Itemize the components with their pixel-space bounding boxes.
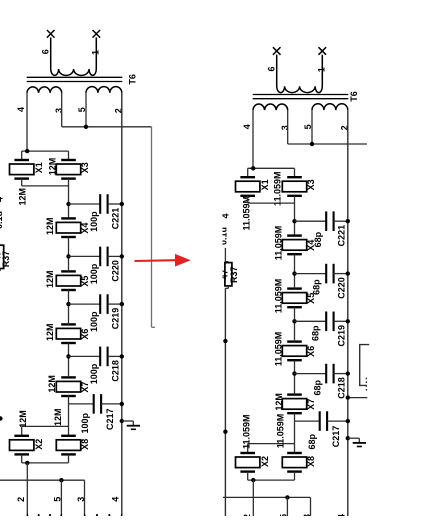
svg-text:12M: 12M bbox=[47, 158, 57, 176]
node C221 tap (L) bbox=[66, 202, 70, 206]
transformer T6 core (L) bbox=[27, 76, 123, 78]
svg-text:C221: C221 bbox=[337, 225, 347, 247]
node C218 bus junction (R) bbox=[346, 371, 350, 375]
right filter circuit bbox=[218, 213, 239, 521]
wire bus pin2 vertical (L) bbox=[121, 93, 123, 514]
wire C217 left (L) bbox=[69, 403, 94, 405]
node neighbour bus upper (R) bbox=[223, 339, 227, 343]
wire chain X3-X4 (R) bbox=[294, 196, 296, 236]
wire X2-X8 bottom net (L) bbox=[22, 462, 69, 464]
svg-text:X3: X3 bbox=[306, 179, 316, 190]
capacitor C218 (L) bbox=[99, 347, 101, 367]
node C219 tap (L) bbox=[66, 302, 70, 306]
wire bus pin2 vertical (R) bbox=[347, 110, 349, 521]
capacitor C219 (R) bbox=[325, 312, 327, 332]
svg-text:12M: 12M bbox=[274, 393, 284, 411]
svg-text:X8: X8 bbox=[80, 439, 90, 450]
wire X3 top lead (R) bbox=[294, 168, 296, 177]
ground (R) bbox=[358, 438, 360, 443]
wire bottom pin5 lead (L) bbox=[60, 480, 62, 514]
crystal X6 (R) bbox=[287, 340, 302, 342]
wire C217 right (R) bbox=[327, 420, 348, 422]
wire to ground (L) bbox=[122, 420, 134, 422]
capacitor C220 (L) bbox=[99, 247, 101, 267]
svg-text:C218: C218 bbox=[337, 377, 347, 399]
wire bottom horizontal net (R) bbox=[223, 496, 311, 498]
wire C220 right (L) bbox=[108, 255, 122, 257]
crystal X8 (L) bbox=[61, 435, 76, 437]
svg-text:2: 2 bbox=[16, 497, 26, 502]
wire neighbour bus (R) bbox=[224, 288, 226, 521]
wire pin4 lead (L) bbox=[26, 93, 28, 151]
svg-text:X8: X8 bbox=[306, 456, 316, 467]
node C220 tap (L) bbox=[66, 254, 70, 258]
transformer T6 primary x-mark pin 6 (R) bbox=[273, 47, 281, 55]
svg-text:100p: 100p bbox=[89, 311, 99, 332]
wire C221 right (L) bbox=[108, 203, 122, 205]
ground (L) bbox=[132, 421, 134, 426]
node C220 bus junction (R) bbox=[346, 271, 350, 275]
transformer T6 secondary winding 4-3 (L) bbox=[27, 87, 62, 93]
wire chain X3-X4 (L) bbox=[68, 179, 70, 219]
svg-text:12M: 12M bbox=[45, 323, 55, 341]
bottom transformer winding 2-5 (L) bbox=[27, 514, 61, 520]
svg-text:3: 3 bbox=[280, 125, 290, 130]
wire C218 left (R) bbox=[295, 373, 327, 375]
node bottom pin5 junction (R) bbox=[285, 495, 289, 499]
capacitor C217 (R) bbox=[319, 411, 321, 431]
wire chain X4-X5 (R) bbox=[294, 254, 296, 288]
wire R37 bottom lead (R) bbox=[227, 286, 229, 288]
svg-text:C219: C219 bbox=[111, 308, 121, 330]
node bottom pin5 junction (L) bbox=[59, 478, 63, 482]
wire chain X5-X6 (L) bbox=[68, 290, 70, 324]
node bottom pin2 junction (R) bbox=[251, 478, 255, 482]
transformer T6 primary winding 6-1 (L) bbox=[51, 37, 97, 75]
crystal X5 (R) bbox=[287, 287, 302, 289]
svg-text:C217: C217 bbox=[331, 426, 341, 448]
wire R37 bottom lead (L) bbox=[0, 269, 1, 271]
svg-text:11.059M: 11.059M bbox=[272, 171, 282, 206]
wire X1 top lead (L) bbox=[21, 151, 23, 160]
svg-text:C220: C220 bbox=[111, 260, 121, 282]
crystal X2 (L) bbox=[14, 435, 29, 437]
wire pin3-pin5 net (R) bbox=[288, 143, 348, 145]
crystal X3 (L) bbox=[61, 159, 76, 161]
svg-text:11.059M: 11.059M bbox=[273, 226, 283, 261]
wire C221 left (L) bbox=[69, 203, 101, 205]
crystal X1 (L) bbox=[14, 159, 29, 161]
transformer T6 primary x-mark pin 6 (L) bbox=[47, 30, 55, 38]
wire X2-X8 bottom net (R) bbox=[248, 479, 295, 481]
wire X3 top lead (L) bbox=[68, 151, 70, 160]
svg-text:100p: 100p bbox=[89, 363, 99, 384]
svg-text:6: 6 bbox=[40, 49, 50, 54]
wire C218 left (L) bbox=[69, 355, 101, 357]
wire C220 left (R) bbox=[295, 273, 327, 275]
svg-text:4: 4 bbox=[111, 497, 121, 502]
wire X2 branch (R) bbox=[248, 443, 295, 445]
transformer T6 secondary winding 5-2 (L) bbox=[86, 87, 122, 93]
wire bottom pin2 lead (L) bbox=[26, 463, 28, 514]
svg-text:C219: C219 bbox=[337, 325, 347, 347]
node ground junction (L) bbox=[120, 419, 124, 423]
capacitor C221 (R) bbox=[325, 211, 327, 231]
node C219 bus junction (L) bbox=[120, 302, 124, 306]
svg-text:R37: R37 bbox=[229, 266, 239, 283]
svg-text:1: 1 bbox=[90, 50, 100, 55]
svg-text:4: 4 bbox=[0, 197, 5, 202]
node neighbour bus lower (L) bbox=[0, 416, 3, 420]
svg-text:X3: X3 bbox=[80, 162, 90, 173]
wire hook at drop end (L) bbox=[152, 326, 155, 328]
svg-text:X1: X1 bbox=[34, 162, 44, 173]
wire X1-X3 top net (L) bbox=[22, 150, 69, 152]
svg-text:11.059M: 11.059M bbox=[273, 279, 283, 314]
wire chain X6-X7 (R) bbox=[294, 360, 296, 394]
svg-text:68p: 68p bbox=[311, 325, 321, 341]
node C217 bus junction (L) bbox=[120, 402, 124, 406]
svg-text:11.059M: 11.059M bbox=[276, 414, 286, 449]
crystal X7 (R) bbox=[287, 393, 302, 395]
wire bottom pin5 lead (R) bbox=[286, 497, 288, 521]
wire bottom pin2 lead (R) bbox=[252, 480, 254, 521]
crystal X4 (R) bbox=[287, 234, 302, 236]
svg-text:4: 4 bbox=[242, 124, 252, 129]
wire X1 bottom lead (L) bbox=[21, 179, 23, 186]
right circuit stub wire bbox=[349, 397, 368, 399]
transformer T6 primary x-mark pin 1 (L) bbox=[93, 30, 101, 38]
wire C221 left (R) bbox=[295, 220, 327, 222]
wire X1-X3 bottom net (L) bbox=[22, 185, 69, 187]
resistor R37 (L) bbox=[0, 245, 4, 268]
crystal X1 (R) bbox=[240, 176, 255, 178]
svg-text:11.059M: 11.059M bbox=[242, 414, 252, 449]
svg-text:C220: C220 bbox=[337, 277, 347, 299]
wire C217 right (L) bbox=[101, 403, 122, 405]
svg-text:T6: T6 bbox=[349, 91, 359, 102]
svg-text:68p: 68p bbox=[313, 379, 323, 395]
svg-text:100p: 100p bbox=[89, 211, 99, 232]
wire C219 right (L) bbox=[108, 303, 122, 305]
svg-text:C221: C221 bbox=[111, 208, 121, 230]
wire X2 top lead (L) bbox=[21, 426, 23, 435]
wire R37 top lead (R) bbox=[224, 248, 226, 262]
svg-text:X2: X2 bbox=[260, 456, 270, 467]
svg-text:3: 3 bbox=[76, 497, 86, 502]
svg-text:C218: C218 bbox=[111, 360, 121, 382]
svg-text:12M: 12M bbox=[18, 410, 28, 428]
svg-text:12M: 12M bbox=[45, 217, 55, 235]
wire C219 left (L) bbox=[69, 303, 101, 305]
wire C220 left (L) bbox=[69, 255, 101, 257]
crystal X6 (L) bbox=[61, 323, 76, 325]
node C218 bus junction (L) bbox=[120, 354, 124, 358]
crystal X2 (R) bbox=[240, 452, 255, 454]
node pin4 junction (R) bbox=[251, 166, 255, 170]
svg-text:0.1u: 0.1u bbox=[0, 211, 4, 229]
svg-text:5: 5 bbox=[53, 497, 63, 502]
node pin4 junction (L) bbox=[25, 149, 29, 153]
node stub junction bbox=[346, 395, 350, 399]
svg-text:3: 3 bbox=[54, 108, 64, 113]
wire bottom horizontal net (L) bbox=[0, 479, 85, 481]
wire pin5 lead (R) bbox=[311, 110, 313, 144]
crystal X3 (R) bbox=[287, 176, 302, 178]
transformer T6 core (R) bbox=[253, 94, 349, 96]
crystal X8 (R) bbox=[287, 452, 302, 454]
wire C218 right (R) bbox=[334, 373, 348, 375]
wire C218 right (L) bbox=[108, 355, 122, 357]
svg-text:1: 1 bbox=[316, 67, 326, 72]
svg-text:X6: X6 bbox=[306, 346, 316, 357]
wire X8 bottom lead (R) bbox=[294, 472, 296, 481]
wire X2 bottom lead (R) bbox=[247, 472, 249, 481]
wire chain X7-X8 (L) bbox=[68, 396, 70, 436]
wire stub right of bus (L) bbox=[122, 126, 152, 128]
node C219 tap (R) bbox=[292, 319, 296, 323]
wire C221 right (R) bbox=[334, 220, 348, 222]
svg-text:12M: 12M bbox=[53, 408, 63, 426]
svg-text:68p: 68p bbox=[313, 231, 323, 247]
node C219 bus junction (R) bbox=[346, 319, 350, 323]
wire chain X4-X5 (L) bbox=[68, 237, 70, 271]
wire X2 bottom lead (L) bbox=[21, 454, 23, 463]
node C218 tap (R) bbox=[292, 371, 296, 375]
wire bottom pin3 lead (R) bbox=[310, 497, 312, 521]
capacitor C220 (R) bbox=[325, 264, 327, 284]
wire C217 left (R) bbox=[295, 420, 320, 422]
node pin3/pin5 junction (L) bbox=[84, 125, 88, 129]
wire chain X7-X8 (R) bbox=[294, 413, 296, 453]
wire chain X5-X6 (R) bbox=[294, 307, 296, 341]
node neighbour bus lower (R) bbox=[223, 430, 227, 434]
red arrow bbox=[135, 259, 177, 262]
wire bottom pin3 lead (L) bbox=[84, 480, 86, 514]
capacitor C217 (L) bbox=[93, 394, 95, 414]
node C221 tap (R) bbox=[292, 219, 296, 223]
crystal X7 (L) bbox=[61, 376, 76, 378]
node C220 tap (R) bbox=[292, 271, 296, 275]
bottom transformer winding 3-4 (L) bbox=[85, 514, 122, 520]
wire C220 right (R) bbox=[334, 273, 348, 275]
right circuit bracket fragment bbox=[360, 345, 370, 386]
svg-text:100p: 100p bbox=[89, 263, 99, 284]
wire X2 branch (L) bbox=[22, 425, 69, 427]
wire pin4 lead (R) bbox=[252, 110, 254, 168]
wire C219 left (R) bbox=[295, 320, 327, 322]
wire pin3 lead (R) bbox=[287, 110, 289, 144]
node C221 bus junction (L) bbox=[120, 202, 124, 206]
wire X2 top lead (R) bbox=[247, 444, 249, 453]
wire X1-X3 bottom net (R) bbox=[248, 202, 295, 204]
node bottom pin2 junction (L) bbox=[25, 461, 29, 465]
wire pin5 lead (L) bbox=[85, 93, 87, 127]
wire stub right of bus (R) bbox=[348, 143, 367, 145]
resistor R37 (R) bbox=[225, 263, 232, 286]
capacitor C219 (L) bbox=[99, 294, 101, 314]
wire X1-X3 top net (R) bbox=[248, 167, 295, 169]
svg-text:T6: T6 bbox=[128, 74, 138, 85]
svg-text:100p: 100p bbox=[80, 412, 90, 433]
crystal X4 (L) bbox=[61, 217, 76, 219]
svg-text:4: 4 bbox=[16, 107, 26, 112]
node ground junction (R) bbox=[346, 436, 350, 440]
transformer T6 primary x-mark pin 1 (R) bbox=[319, 47, 327, 55]
node C218 tap (L) bbox=[66, 354, 70, 358]
wire C219 right (R) bbox=[334, 320, 348, 322]
capacitor C221 (L) bbox=[99, 194, 101, 214]
svg-text:68p: 68p bbox=[307, 433, 317, 449]
wire X8 bottom lead (L) bbox=[68, 454, 70, 463]
wire long vertical drop (L) bbox=[151, 127, 153, 327]
transformer T6 secondary winding 4-3 (R) bbox=[253, 104, 288, 110]
capacitor C218 (R) bbox=[325, 364, 327, 384]
transformer T6 primary winding 6-1 (R) bbox=[277, 55, 323, 93]
node C217 bus junction (R) bbox=[346, 419, 350, 423]
svg-text:11.059M: 11.059M bbox=[273, 332, 283, 367]
transformer T6 secondary winding 5-2 (R) bbox=[312, 104, 348, 110]
svg-text:68p: 68p bbox=[311, 279, 321, 295]
svg-text:C217: C217 bbox=[105, 408, 115, 430]
node C220 bus junction (L) bbox=[120, 254, 124, 258]
wire to ground (R) bbox=[348, 437, 360, 439]
wire pin3-pin5 net (L) bbox=[62, 126, 122, 128]
svg-text:X2: X2 bbox=[34, 439, 44, 450]
svg-text:X1: X1 bbox=[260, 179, 270, 190]
svg-text:12M: 12M bbox=[17, 188, 27, 206]
svg-text:12M: 12M bbox=[47, 375, 57, 393]
svg-text:47: 47 bbox=[0, 251, 2, 261]
node pin3/pin5 junction (R) bbox=[310, 142, 314, 146]
svg-text:11.059M: 11.059M bbox=[242, 196, 252, 231]
svg-text:R37: R37 bbox=[1, 251, 11, 268]
wire chain X6-X7 (L) bbox=[68, 343, 70, 377]
wire X1 bottom lead (R) bbox=[247, 196, 249, 203]
svg-text:X7: X7 bbox=[306, 399, 316, 410]
wire pin3 lead (L) bbox=[61, 93, 63, 127]
wire X1 top lead (R) bbox=[247, 168, 249, 177]
node C221 bus junction (R) bbox=[346, 219, 350, 223]
crystal X5 (L) bbox=[61, 270, 76, 272]
svg-text:6: 6 bbox=[266, 66, 276, 71]
svg-text:12M: 12M bbox=[45, 270, 55, 288]
